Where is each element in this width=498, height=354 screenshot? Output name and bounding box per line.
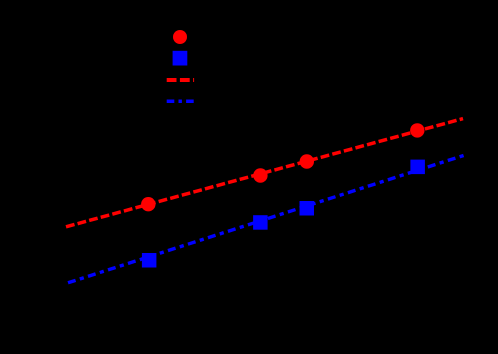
red data point 1: [141, 197, 155, 211]
legend sample: blue dash-dot line: [167, 100, 195, 104]
blue data point 4: [410, 160, 425, 175]
red data point 2: [253, 168, 267, 182]
red dashed fit line: [66, 119, 463, 227]
blue data point 2: [253, 215, 268, 230]
legend marker: red circle: [173, 30, 187, 44]
blue dash-dot fit line: [68, 155, 465, 283]
red data point 4: [410, 123, 424, 137]
blue data point 3: [300, 201, 315, 216]
legend sample: red dashed line: [167, 78, 194, 82]
red data point 3: [300, 154, 314, 168]
legend marker: blue square: [173, 51, 188, 66]
blue data point 1: [142, 253, 157, 268]
